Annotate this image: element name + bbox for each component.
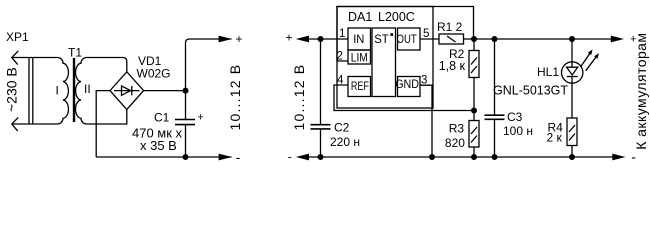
capacitor C3 plate top xyxy=(485,114,505,116)
svg-text:220 н: 220 н xyxy=(330,135,360,149)
wire right top rail input segment xyxy=(309,38,348,40)
svg-text:100 н: 100 н xyxy=(503,124,533,138)
plug body line 1 xyxy=(28,58,30,125)
LED arrow head 1 xyxy=(588,49,593,55)
svg-text:LIM: LIM xyxy=(351,50,368,64)
wire bridge plus to bus xyxy=(144,90,186,92)
svg-text:L200C: L200C xyxy=(378,10,415,24)
transformer T1 winding II xyxy=(76,58,87,125)
plug XP1 pin bottom xyxy=(12,117,18,131)
capacitor C3 plate bottom xyxy=(485,118,505,120)
junction dot input top xyxy=(318,36,324,42)
wire primary top xyxy=(12,57,58,59)
svg-text:+: + xyxy=(197,112,203,124)
LED HL1 light arrow 1 xyxy=(580,52,590,67)
IC DA1 L200C outer box xyxy=(337,7,433,109)
capacitor C2 plate top xyxy=(311,124,331,126)
svg-text:+: + xyxy=(286,31,293,45)
diode VD1 lead xyxy=(114,90,140,92)
LED HL1 light arrow 2 xyxy=(586,56,597,71)
junction dot REF node xyxy=(471,108,477,114)
capacitor C2 plate bottom xyxy=(311,128,331,130)
wire C3 bottom xyxy=(494,119,496,157)
svg-text:2 к: 2 к xyxy=(547,131,563,145)
wire R3 top xyxy=(473,111,475,121)
junction dot R2 top xyxy=(471,36,477,42)
resistor R4 box xyxy=(567,118,577,146)
wire pin 2 stub and LIM loop over IC to R1 output node xyxy=(337,7,474,62)
svg-text:OUT: OUT xyxy=(397,32,418,46)
resistor R1 box xyxy=(439,34,464,44)
svg-text:~230 В: ~230 В xyxy=(4,67,20,112)
resistor R4 slashes xyxy=(569,125,575,132)
junction dot GND bottom xyxy=(429,154,435,160)
svg-text:-: - xyxy=(236,149,241,165)
svg-text:GNL-5013GT: GNL-5013GT xyxy=(493,84,568,98)
wire primary bottom xyxy=(12,123,58,125)
wire right bottom rail xyxy=(309,156,613,158)
wire secondary top jumper xyxy=(87,58,127,72)
arrow right-section output bottom (points right) xyxy=(612,154,625,161)
junction dot C1 bottom rail xyxy=(183,154,189,160)
svg-text:К аккумуляторам: К аккумуляторам xyxy=(633,33,649,150)
svg-text:5: 5 xyxy=(423,28,429,40)
junction dot bridge plus xyxy=(183,88,189,94)
svg-text:C2: C2 xyxy=(334,121,350,135)
wire secondary bottom jumper xyxy=(87,110,127,125)
svg-text:T1: T1 xyxy=(68,46,82,60)
wire pin 3 GND drop xyxy=(420,85,432,157)
diode VD1 cathode bar xyxy=(131,86,133,95)
IC inner box REF xyxy=(348,77,371,97)
transformer T1 core xyxy=(73,58,75,122)
LED HL1 cathode bar xyxy=(567,76,578,78)
junction dot R3 bottom xyxy=(471,154,477,160)
wire right top rail output segment xyxy=(464,38,613,40)
wire C2 drop top xyxy=(320,39,322,125)
transformer T1 winding I xyxy=(58,58,69,125)
wire R2 bottom to node xyxy=(473,78,475,111)
plug XP1 pin top xyxy=(12,51,18,65)
svg-text:DA1: DA1 xyxy=(348,10,372,24)
svg-text:C3: C3 xyxy=(507,110,523,124)
wire C1 top xyxy=(185,91,187,120)
svg-text:R1 2: R1 2 xyxy=(437,20,463,34)
wire C2 drop bottom xyxy=(320,129,322,157)
resistor R3 box xyxy=(469,121,479,148)
svg-text:II: II xyxy=(84,82,91,96)
arrow right-section output top (points right) xyxy=(611,36,624,43)
wire bridge minus drop xyxy=(96,91,110,157)
wire R4 bottom xyxy=(571,146,573,158)
LED arrow head 2 xyxy=(594,53,599,59)
wire left bottom rail xyxy=(96,156,231,158)
svg-text:х 35 В: х 35 В xyxy=(140,138,177,153)
svg-text:10...12 В: 10...12 В xyxy=(227,64,243,131)
wire HL1 top xyxy=(571,39,573,67)
junction dot input bottom xyxy=(318,154,324,160)
LED HL1 circle xyxy=(562,62,583,83)
svg-text:-: - xyxy=(288,150,292,164)
diode VD1 triangle xyxy=(122,86,131,95)
svg-text:1,8 к: 1,8 к xyxy=(439,59,466,73)
svg-text:820: 820 xyxy=(445,136,465,150)
wire HL1 to R4 xyxy=(571,77,573,119)
junction dot R4 bottom xyxy=(569,154,575,160)
plug body line 2 xyxy=(32,58,34,125)
svg-text:XP1: XP1 xyxy=(6,30,29,44)
junction dot C3 bottom xyxy=(492,154,498,160)
wire pin 5 stub to R1 xyxy=(420,38,439,40)
arrow left-section bottom output xyxy=(219,154,232,161)
arrow right-section input bottom (points left) xyxy=(296,154,309,161)
svg-text:REF: REF xyxy=(351,79,369,93)
wire pin 4 REF to node xyxy=(334,85,474,111)
capacitor C1 plate bottom xyxy=(175,124,195,126)
junction dot C3 top xyxy=(492,36,498,42)
IC inner box LIM xyxy=(348,50,371,64)
svg-text:ST: ST xyxy=(374,32,389,46)
IC inner box GND xyxy=(398,77,421,97)
svg-text:IN: IN xyxy=(353,32,364,46)
svg-text:+: + xyxy=(236,32,243,46)
svg-text:C1: C1 xyxy=(154,111,170,125)
svg-text:R3: R3 xyxy=(449,122,465,136)
IC inner box IN xyxy=(348,28,371,50)
svg-text:GND: GND xyxy=(395,77,419,91)
wire C1 to bottom rail xyxy=(185,125,187,158)
svg-text:2: 2 xyxy=(337,51,343,63)
wire R2 top xyxy=(473,39,475,51)
LED HL1 triangle xyxy=(567,67,578,75)
svg-text:4: 4 xyxy=(337,75,344,87)
label ST asterisk square xyxy=(390,33,393,36)
svg-text:HL1: HL1 xyxy=(537,65,559,79)
resistor R3 slashes xyxy=(471,127,477,134)
wire R3 bottom xyxy=(473,147,475,157)
wire left output bus vertical top xyxy=(186,39,232,91)
svg-text:10...12 В: 10...12 В xyxy=(291,64,307,131)
resistor R2 slashes xyxy=(471,58,477,65)
svg-text:I: I xyxy=(56,84,59,98)
arrow right-section input top (points left) xyxy=(296,36,309,43)
resistor R2 box xyxy=(469,51,479,78)
svg-text:1: 1 xyxy=(339,28,345,40)
svg-text:W02G: W02G xyxy=(137,67,171,81)
arrow left-section top output xyxy=(219,36,232,43)
capacitor C1 plate top xyxy=(175,119,195,121)
IC inner box ST xyxy=(372,28,396,97)
IC inner box OUT xyxy=(398,28,421,50)
junction dot HL1 top xyxy=(569,36,575,42)
wire C3 top xyxy=(494,39,496,115)
resistor R1 power slash xyxy=(447,36,456,42)
bridge rectifier VD1 diamond xyxy=(110,72,144,110)
svg-text:3: 3 xyxy=(421,75,427,87)
